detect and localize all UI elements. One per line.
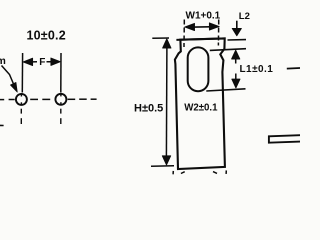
svg-text:H±0.5: H±0.5	[134, 102, 163, 114]
hole circle left	[16, 94, 27, 105]
vertical centerline marks circle left	[20, 93, 22, 124]
svg-text:m: m	[0, 55, 6, 67]
side view blade rectangle (cut off at right edge)	[269, 135, 301, 143]
stray line right edge (cut-off view)	[287, 67, 300, 70]
extension line right (F dim)	[60, 53, 62, 93]
hole circle right	[55, 94, 66, 105]
L2 down arrow	[236, 21, 238, 30]
extension line left (F dim)	[21, 53, 23, 93]
W1 extension dashed line right	[217, 20, 219, 46]
terminal body outline	[175, 39, 225, 170]
svg-text:F: F	[39, 57, 45, 68]
break marks below body	[173, 170, 226, 174]
slot top reference line	[210, 49, 246, 51]
dimension F arrows	[23, 58, 60, 66]
horizontal dashed centerline	[0, 98, 97, 100]
stray mark bottom left	[0, 124, 4, 126]
H dimension line with outward arrows	[165, 47, 168, 157]
svg-text:10±0.2: 10±0.2	[27, 29, 66, 43]
slot (oval hole)	[188, 47, 209, 91]
L2 top reference line	[228, 39, 247, 41]
svg-text:W2±0.1: W2±0.1	[184, 102, 218, 113]
tab top edge with drafting overshoot	[176, 38, 225, 40]
H dimension top extension line	[152, 37, 169, 39]
slot bottom reference line	[206, 89, 245, 91]
W1 dimension double arrow	[188, 26, 216, 29]
svg-text:L2: L2	[239, 11, 250, 22]
svg-text:W1+0.1: W1+0.1	[186, 11, 221, 22]
W1 extension dashed line left	[183, 20, 185, 48]
H dimension bottom extension line	[151, 165, 174, 168]
L1 dimension arrows	[232, 50, 240, 59]
leader line with arrowhead	[2, 66, 15, 87]
svg-text:L1±0.1: L1±0.1	[240, 64, 274, 75]
vertical centerline marks circle right	[60, 93, 62, 124]
